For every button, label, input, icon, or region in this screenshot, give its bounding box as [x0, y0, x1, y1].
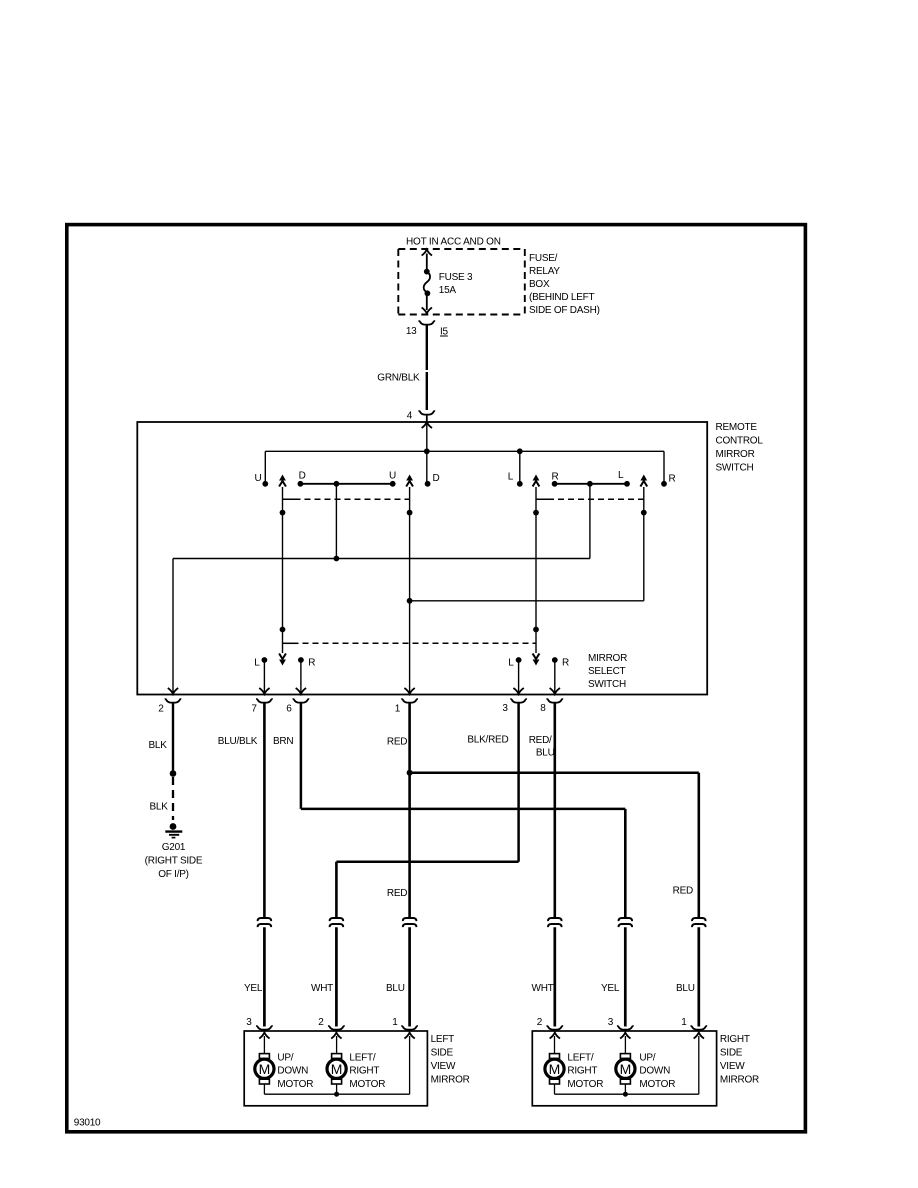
svg-text:UP/: UP/ [277, 1052, 293, 1063]
svg-text:15A: 15A [439, 285, 457, 296]
svg-text:HOT IN ACC AND ON: HOT IN ACC AND ON [406, 236, 501, 247]
svg-text:WHT: WHT [532, 983, 554, 994]
svg-text:1: 1 [392, 1017, 398, 1028]
svg-text:R: R [669, 474, 676, 485]
svg-text:BOX: BOX [529, 279, 550, 290]
svg-text:WHT: WHT [311, 983, 333, 994]
svg-text:MIRROR: MIRROR [588, 653, 627, 664]
svg-text:M: M [331, 1061, 343, 1077]
svg-text:8: 8 [540, 703, 546, 714]
svg-text:SIDE OF DASH): SIDE OF DASH) [529, 305, 600, 316]
svg-text:6: 6 [286, 704, 292, 715]
svg-text:M: M [259, 1061, 271, 1077]
svg-text:LEFT/: LEFT/ [567, 1052, 593, 1063]
svg-text:L: L [508, 472, 514, 483]
svg-text:FUSE/: FUSE/ [529, 253, 558, 264]
svg-text:13: 13 [406, 326, 417, 337]
svg-text:R: R [562, 658, 569, 669]
svg-text:MIRROR: MIRROR [720, 1075, 759, 1086]
svg-text:M: M [620, 1061, 632, 1077]
svg-text:RED/: RED/ [529, 735, 552, 746]
svg-text:2: 2 [318, 1017, 324, 1028]
svg-text:BLU: BLU [386, 983, 405, 994]
svg-text:MOTOR: MOTOR [349, 1079, 385, 1090]
svg-text:MIRROR: MIRROR [431, 1075, 470, 1086]
svg-text:RED: RED [387, 888, 407, 899]
svg-text:SIDE: SIDE [720, 1048, 743, 1059]
svg-text:REMOTE: REMOTE [716, 422, 758, 433]
svg-text:VIEW: VIEW [431, 1061, 456, 1072]
svg-text:1: 1 [681, 1017, 687, 1028]
svg-text:YEL: YEL [601, 983, 620, 994]
svg-text:RED: RED [387, 737, 407, 748]
svg-text:BRN: BRN [273, 736, 293, 747]
svg-text:SIDE: SIDE [431, 1048, 454, 1059]
svg-text:4: 4 [407, 411, 413, 422]
svg-text:MOTOR: MOTOR [277, 1079, 313, 1090]
svg-text:LEFT/: LEFT/ [349, 1052, 375, 1063]
svg-text:U: U [255, 473, 262, 484]
svg-text:BLU: BLU [676, 983, 695, 994]
svg-text:D: D [433, 473, 440, 484]
svg-text:2: 2 [158, 704, 164, 715]
svg-text:U: U [389, 471, 396, 482]
svg-text:BLU: BLU [536, 748, 555, 759]
svg-text:MOTOR: MOTOR [567, 1079, 603, 1090]
svg-text:UP/: UP/ [639, 1052, 655, 1063]
svg-text:RIGHT: RIGHT [720, 1034, 750, 1045]
svg-text:SWITCH: SWITCH [716, 463, 754, 474]
svg-text:BLK: BLK [149, 740, 168, 751]
svg-text:M: M [549, 1061, 561, 1077]
svg-text:RED: RED [673, 886, 693, 897]
svg-text:L: L [508, 658, 514, 669]
svg-text:93010: 93010 [74, 1118, 101, 1129]
svg-text:FUSE 3: FUSE 3 [439, 272, 473, 283]
svg-text:RELAY: RELAY [529, 266, 560, 277]
svg-text:3: 3 [246, 1017, 252, 1028]
svg-text:3: 3 [502, 703, 508, 714]
svg-text:(RIGHT SIDE: (RIGHT SIDE [145, 856, 203, 867]
svg-text:3: 3 [608, 1017, 614, 1028]
svg-text:YEL: YEL [244, 983, 263, 994]
svg-text:OF I/P): OF I/P) [158, 869, 188, 880]
svg-text:(BEHIND LEFT: (BEHIND LEFT [529, 292, 594, 303]
svg-text:MOTOR: MOTOR [639, 1079, 675, 1090]
svg-text:L: L [618, 470, 624, 481]
svg-text:7: 7 [251, 704, 257, 715]
svg-text:CONTROL: CONTROL [716, 436, 764, 447]
svg-text:RIGHT: RIGHT [349, 1066, 379, 1077]
svg-text:SWITCH: SWITCH [588, 679, 626, 690]
svg-text:R: R [552, 472, 559, 483]
svg-text:DOWN: DOWN [277, 1066, 308, 1077]
svg-text:BLK/RED: BLK/RED [467, 735, 508, 746]
svg-text:GRN/BLK: GRN/BLK [377, 372, 420, 383]
svg-text:R: R [308, 658, 315, 669]
svg-text:MIRROR: MIRROR [716, 449, 755, 460]
svg-text:VIEW: VIEW [720, 1061, 745, 1072]
svg-text:D: D [299, 471, 306, 482]
svg-text:L: L [254, 658, 260, 669]
svg-text:BLU/BLK: BLU/BLK [218, 736, 258, 747]
svg-text:I5: I5 [440, 327, 449, 338]
svg-text:2: 2 [537, 1017, 543, 1028]
svg-text:LEFT: LEFT [431, 1034, 455, 1045]
svg-text:G201: G201 [162, 842, 186, 853]
svg-text:1: 1 [395, 704, 401, 715]
svg-text:DOWN: DOWN [639, 1066, 670, 1077]
svg-text:BLK: BLK [150, 802, 169, 813]
svg-text:SELECT: SELECT [588, 666, 626, 677]
svg-text:RIGHT: RIGHT [567, 1066, 597, 1077]
